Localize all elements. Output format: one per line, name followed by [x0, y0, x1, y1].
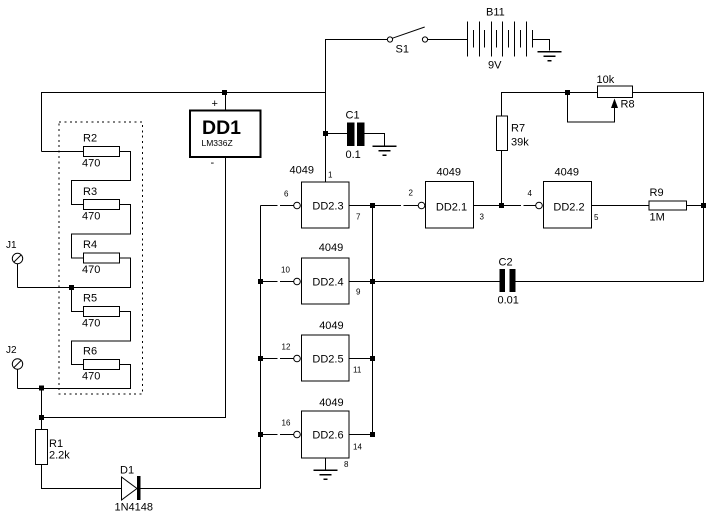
IC DD2.5 box: [302, 335, 350, 381]
ground (DD2.6 pin 8): [314, 469, 338, 471]
inverter bubble DD2.3 pin6: [294, 202, 301, 209]
svg-text:J1: J1: [6, 240, 17, 251]
resistor R6 470: [84, 360, 120, 370]
svg-text:4049: 4049: [290, 165, 314, 177]
wire DD2.5 input pin12: [261, 358, 294, 360]
ground (C1): [373, 146, 397, 148]
svg-text:5: 5: [594, 213, 599, 222]
wire bottom rail down to R1: [41, 389, 43, 430]
potentiometer R8 10k body: [598, 86, 633, 98]
svg-text:8: 8: [344, 460, 349, 469]
svg-text:9: 9: [356, 288, 361, 297]
svg-text:R5: R5: [83, 293, 97, 305]
potentiometer R8 wiper arrow: [611, 99, 618, 109]
svg-text:14: 14: [353, 443, 362, 452]
svg-text:4049: 4049: [319, 397, 343, 409]
svg-text:1N4148: 1N4148: [115, 502, 154, 514]
svg-text:J2: J2: [6, 345, 17, 356]
diode D1 cathode bar: [137, 476, 141, 500]
svg-text:D1: D1: [120, 465, 134, 477]
svg-text:B11: B11: [486, 7, 505, 19]
wire DD2.4 output pin9: [349, 281, 373, 283]
svg-text:7: 7: [356, 213, 361, 222]
svg-text:R9: R9: [650, 187, 664, 199]
svg-text:C2: C2: [499, 257, 513, 269]
wire R2 left lead: [42, 151, 84, 153]
wire C1 lead: [326, 133, 348, 135]
svg-text:470: 470: [82, 318, 100, 330]
wire S1 to battery: [428, 39, 467, 41]
IC DD2.6 box: [302, 411, 350, 458]
wire battery to ground stub: [533, 40, 550, 51]
wire DD2.4 input pin10: [261, 281, 294, 283]
dotted selection box around R2-R6: [59, 122, 143, 394]
resistor R9 1M: [649, 201, 687, 210]
svg-text:470: 470: [82, 211, 100, 223]
wire DD1 plus lead: [225, 93, 227, 111]
svg-text:R6: R6: [83, 346, 97, 358]
wire R9 to right edge: [687, 205, 704, 207]
wire R5 to R6: [72, 312, 131, 365]
wire diode to input bus: [141, 488, 261, 490]
capacitor C1 plates: [347, 123, 355, 147]
svg-text:39k: 39k: [511, 137, 529, 149]
wire R6 to bottom rail and J2: [18, 365, 131, 389]
svg-text:DD2.2: DD2.2: [553, 202, 584, 214]
wire pot right to right edge down to C2: [633, 93, 704, 282]
IC DD2.1 box: [426, 182, 474, 229]
switch S1: [387, 27, 427, 42]
svg-text:2: 2: [409, 189, 414, 198]
junction node dots: [222, 90, 227, 95]
svg-text:16: 16: [282, 419, 291, 428]
svg-text:DD2.5: DD2.5: [312, 354, 343, 366]
wire C1 to ground: [365, 134, 385, 146]
wire DD2.3 output pin7: [349, 205, 373, 207]
ground (battery): [538, 51, 562, 53]
resistor R5 470: [84, 307, 120, 317]
wire C2 row from output bus: [373, 281, 500, 283]
resistor R1 2.2k: [36, 430, 48, 465]
svg-text:4049: 4049: [319, 320, 343, 332]
svg-text:R3: R3: [83, 186, 97, 198]
svg-text:R8: R8: [621, 99, 635, 111]
wire DD2.6 output pin14: [349, 434, 373, 436]
inverter bubble DD2.1 pin2: [418, 202, 425, 209]
svg-text:470: 470: [82, 264, 100, 276]
wire top rail from battery vertical down to DD2.3 pin1: [326, 40, 388, 182]
wire R7 top lead and +rail to pot: [502, 93, 598, 117]
wire DD2.2 output pin5 to R9: [592, 205, 650, 207]
svg-text:-: -: [211, 157, 215, 169]
svg-text:4: 4: [528, 189, 533, 198]
svg-text:DD2.4: DD2.4: [312, 277, 343, 289]
IC DD2.4 box: [302, 258, 350, 304]
svg-text:10k: 10k: [597, 74, 615, 86]
svg-text:0.01: 0.01: [498, 295, 519, 307]
wire left +rail: [42, 93, 326, 152]
svg-text:DD2.6: DD2.6: [312, 430, 343, 442]
resistor R7 39k: [497, 116, 508, 151]
wire R3 to R4: [72, 205, 131, 259]
svg-text:R1: R1: [49, 438, 63, 450]
wire C2 right lead: [516, 281, 704, 283]
wire R7 bottom lead: [501, 151, 503, 206]
svg-text:1M: 1M: [650, 212, 665, 224]
svg-text:4049: 4049: [555, 167, 579, 179]
svg-text:470: 470: [82, 158, 100, 170]
wire DD2.5 output pin11: [349, 358, 373, 360]
svg-text:+: +: [212, 98, 218, 110]
wire R1 bottom to diode D1: [42, 465, 122, 489]
connector J2: [12, 359, 22, 369]
inverter bubble DD2.6 pin16: [294, 431, 301, 438]
svg-text:1: 1: [328, 171, 333, 180]
wire DD2.6 ground stub: [325, 458, 327, 470]
svg-text:2.2k: 2.2k: [49, 450, 70, 462]
svg-text:LM336Z: LM336Z: [202, 138, 233, 148]
inverter bubble DD2.4 pin10: [294, 278, 301, 285]
wire DD2.3 input pin6: [261, 205, 294, 207]
wire DD2.1 output pin3 to DD2.2 input pin4: [474, 205, 536, 207]
inverter bubble DD2.5 pin12: [294, 355, 301, 362]
capacitor C2 plates: [500, 269, 506, 292]
IC DD2.2 box: [544, 182, 592, 229]
wire R8 wiper loop: [568, 93, 615, 123]
svg-text:R4: R4: [83, 239, 97, 251]
svg-text:3: 3: [480, 213, 485, 222]
IC DD1 box LM336Z: [190, 111, 261, 158]
svg-text:DD2.3: DD2.3: [312, 201, 343, 213]
battery B11 plates long: [468, 22, 527, 57]
svg-text:S1: S1: [396, 44, 409, 56]
wire J1 down lead: [17, 264, 19, 288]
svg-text:4049: 4049: [437, 167, 461, 179]
wire R2 to R3: [72, 152, 131, 205]
svg-text:470: 470: [82, 371, 100, 383]
svg-text:DD2.1: DD2.1: [436, 202, 467, 214]
svg-text:C1: C1: [346, 110, 360, 122]
connector J1: [12, 253, 22, 263]
svg-text:9V: 9V: [488, 60, 502, 72]
resistor R3 470: [84, 200, 120, 210]
inverter bubble DD2.2 pin4: [536, 202, 543, 209]
svg-text:6: 6: [284, 190, 289, 199]
wire gate input bus: [260, 206, 262, 489]
svg-text:R2: R2: [83, 133, 97, 145]
diode D1 triangle: [122, 477, 138, 500]
resistor R4 470: [84, 253, 120, 263]
IC DD2.3 box: [302, 182, 350, 228]
svg-text:10: 10: [281, 266, 290, 275]
wire R4 to R5 with J1 tap: [18, 258, 131, 312]
wire DD2.6 input pin16: [261, 434, 294, 436]
wire DD1 minus rail: [42, 158, 226, 418]
svg-text:R7: R7: [511, 123, 525, 135]
battery B11 plates short: [474, 30, 533, 48]
wire output bus to DD2.1 input pin2: [373, 205, 419, 207]
svg-text:0.1: 0.1: [346, 149, 361, 161]
svg-text:11: 11: [353, 366, 362, 375]
wire J2 down lead: [17, 370, 19, 389]
resistor R2 470: [84, 147, 120, 157]
wire gate output bus: [372, 206, 374, 435]
svg-text:4049: 4049: [319, 242, 343, 254]
svg-text:12: 12: [282, 343, 291, 352]
svg-text:DD1: DD1: [202, 117, 241, 139]
